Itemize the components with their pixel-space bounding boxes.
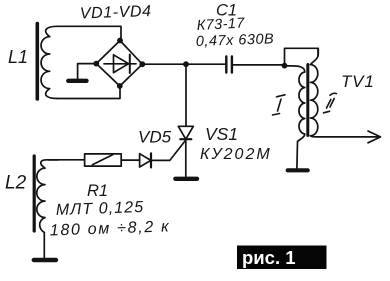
transformer TV1 core	[306, 65, 309, 136]
diode VD5 triangle	[140, 154, 151, 167]
wire C1 to node B	[232, 64, 285, 66]
node A junction	[183, 61, 189, 67]
svg-text:180 ом ÷8,2 к: 180 ом ÷8,2 к	[50, 218, 171, 239]
wire node A to capacitor C1	[186, 63, 227, 65]
svg-text:L1: L1	[8, 47, 28, 67]
thyristor VS1 triangle	[178, 126, 193, 139]
capacitor C1 left plate	[225, 56, 227, 72]
svg-text:R1: R1	[87, 182, 108, 200]
ground under VS1	[175, 177, 197, 181]
inductor L1 winding	[41, 26, 57, 98]
bridge inner diode cathode bar	[129, 55, 131, 74]
svg-text:VD1-VD4: VD1-VD4	[80, 3, 152, 22]
ground under L2	[34, 258, 56, 262]
transformer TV1 secondary winding II	[310, 48, 318, 135]
wire L2 top to R1	[49, 159, 85, 161]
node top of bridge	[117, 38, 123, 44]
wire node A down to thyristor VS1	[185, 64, 187, 126]
wire L2 bottom to ground	[43, 233, 45, 259]
wire VS1 cathode to ground	[185, 139, 187, 176]
ground under bridge	[68, 79, 86, 83]
wire R1 to VD5	[121, 159, 139, 161]
wire L1 bottom to bridge bottom node	[57, 86, 120, 99]
node bottom of bridge	[117, 83, 123, 89]
thyristor VS1 cathode bar	[180, 138, 191, 140]
resistor R1 diagonal	[92, 155, 112, 165]
svg-text:TV1: TV1	[341, 72, 375, 91]
transformer TV1 primary winding I	[285, 66, 305, 168]
wire VS1 gate to VD5	[151, 140, 186, 160]
svg-text:L2: L2	[5, 173, 27, 194]
arrowhead output	[368, 131, 381, 143]
svg-text:рис. 1: рис. 1	[242, 247, 296, 268]
winding label I	[273, 95, 286, 115]
wire TV1 secondary output with arrow	[310, 136, 378, 137]
svg-text:0,47х 630В: 0,47х 630В	[196, 31, 275, 50]
wire node B up and over to TV1 secondary	[285, 48, 319, 65]
winding label II	[324, 93, 337, 113]
node left of bridge	[93, 61, 99, 67]
svg-text:К73-17: К73-17	[196, 15, 245, 34]
inductor L1 core	[35, 24, 39, 100]
bridge inner diode lead	[104, 63, 136, 65]
capacitor C1 right plate	[231, 56, 233, 72]
wire L1 top to bridge top node	[57, 26, 121, 40]
node B junction	[282, 63, 288, 69]
bridge inner diode triangle	[114, 55, 129, 73]
inductor L2 core	[33, 156, 36, 231]
diode bridge VD1-VD4 diamond	[96, 41, 142, 87]
svg-text:VS1: VS1	[205, 124, 238, 144]
resistor R1 body	[85, 154, 122, 166]
figure caption box	[237, 246, 327, 270]
svg-text:МЛТ 0,125: МЛТ 0,125	[56, 199, 145, 219]
svg-text:VD5: VD5	[138, 128, 172, 147]
wire bridge left node to ground	[78, 64, 97, 79]
svg-text:КУ202М: КУ202М	[200, 146, 272, 163]
ground under TV1	[288, 168, 308, 172]
node right of bridge	[139, 61, 145, 67]
inductor L2 winding	[37, 160, 58, 233]
diode VD5 cathode bar	[150, 153, 152, 167]
wire bridge right node to node A	[142, 63, 186, 65]
